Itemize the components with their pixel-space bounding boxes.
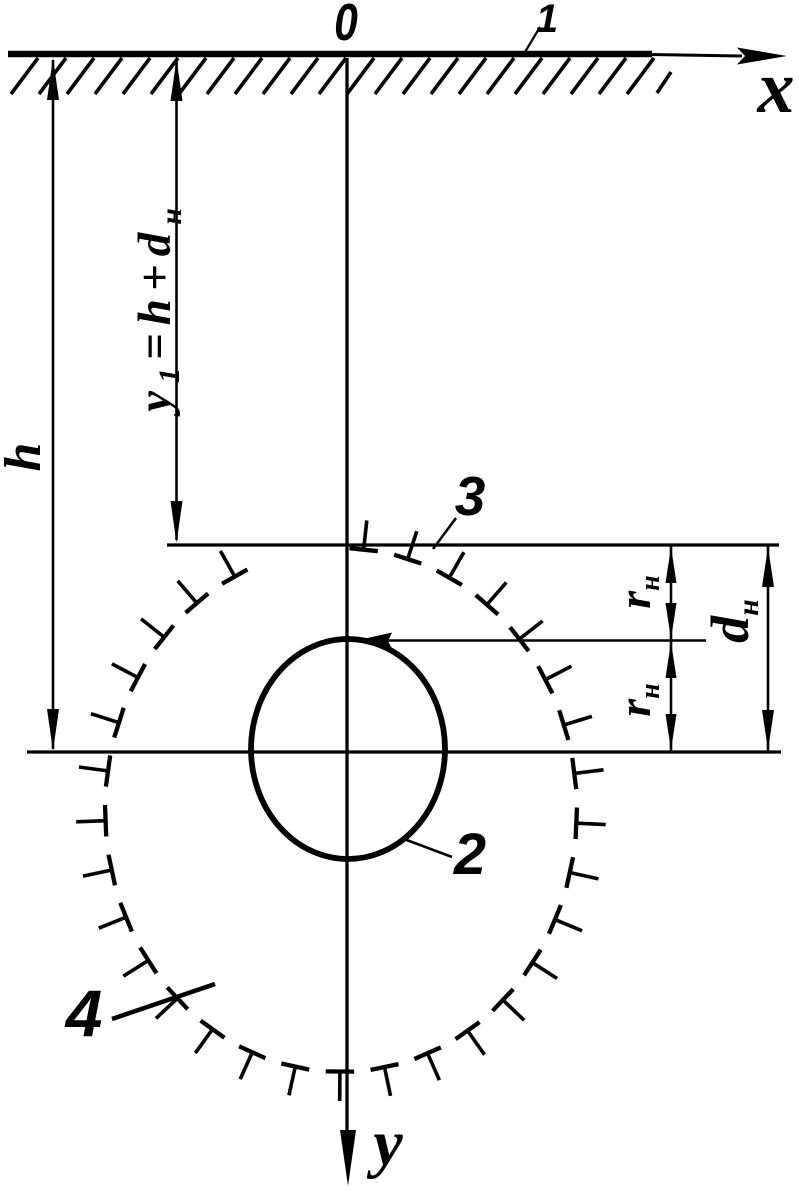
svg-text:0: 0 [334,0,358,52]
leader for label 2 [404,839,452,857]
ground surface line 1 (thick) [8,51,652,58]
dimension line r_n (double) [670,546,673,751]
leader for label 4 [112,984,215,1019]
ground hatching [11,58,38,94]
leader arrowhead pointing at pipe top [354,633,392,650]
dashed thaw-boundary circle [350,548,378,551]
r_n arrow up to pipe-top line [666,642,677,678]
svg-text:4: 4 [64,976,103,1050]
y-axis line [345,58,348,1140]
dimension line d_n [767,546,770,751]
svg-text:h: h [0,443,52,472]
thaw boundary tick marks [364,520,367,549]
d_n top arrowhead [762,547,774,587]
r_n arrow down to pipe-top line [666,603,677,639]
r_n arrow up to line3 [666,547,677,583]
y1 top arrowhead [171,59,183,101]
d_n bottom arrowhead [762,710,774,750]
dimension line h [52,60,55,749]
r_n arrow down to axis line [666,714,677,750]
h top arrowhead [47,58,59,100]
horizontal line through pipe axis [27,750,781,753]
line 3: tangent line at top of thaw boundary [167,543,779,546]
x-axis arrowhead [737,48,787,65]
leader for label 3 [433,518,456,549]
svg-text:x: x [757,47,795,129]
dimension line y1 [175,60,178,540]
pipe circle 2 [251,639,445,859]
svg-text:1: 1 [536,0,558,41]
svg-text:3: 3 [455,465,486,527]
x-axis thin extension [650,55,742,57]
h bottom arrowhead [47,709,59,751]
y1 bottom arrowhead [171,501,183,543]
leader for label 1 [525,27,540,52]
horizontal line at pipe top [360,639,706,642]
svg-text:2: 2 [453,822,486,887]
y-axis arrowhead [340,1130,356,1186]
svg-text:y1=h+dн: y1=h+dн [129,200,188,417]
